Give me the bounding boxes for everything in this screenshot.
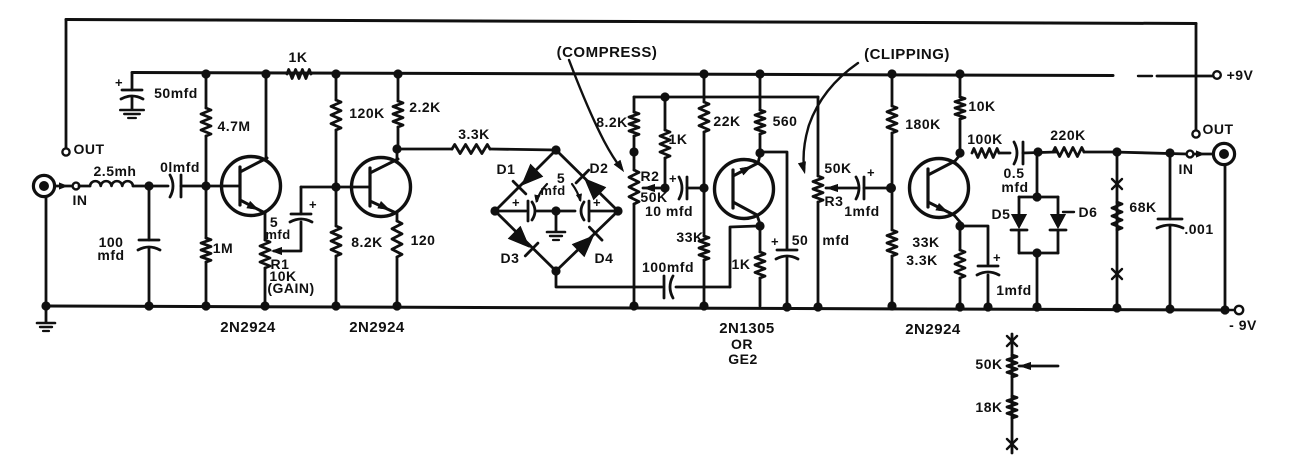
svg-text:33K: 33K xyxy=(912,234,939,250)
svg-text:+: + xyxy=(512,195,520,210)
svg-text:8.2K: 8.2K xyxy=(351,234,383,250)
svg-text:D2: D2 xyxy=(590,160,609,176)
svg-text:OUT: OUT xyxy=(1202,121,1233,137)
svg-text:3.3K: 3.3K xyxy=(906,252,938,268)
svg-text:+: + xyxy=(771,234,779,249)
svg-text:+: + xyxy=(593,195,601,210)
svg-text:(COMPRESS): (COMPRESS) xyxy=(557,44,658,61)
svg-text:+: + xyxy=(669,171,677,186)
svg-text:2N1305: 2N1305 xyxy=(719,320,775,337)
svg-text:R3: R3 xyxy=(825,193,844,209)
svg-text:50K: 50K xyxy=(824,160,851,176)
svg-text:D1: D1 xyxy=(497,161,516,177)
svg-text:220K: 220K xyxy=(1050,127,1085,143)
svg-text:+: + xyxy=(867,165,875,180)
svg-text:1K: 1K xyxy=(732,256,751,272)
svg-text:100mfd: 100mfd xyxy=(642,259,694,275)
svg-text:50K: 50K xyxy=(975,356,1002,372)
svg-text:OR: OR xyxy=(731,336,753,352)
svg-text:10K: 10K xyxy=(968,98,995,114)
svg-text:D3: D3 xyxy=(501,250,520,266)
svg-text:IN: IN xyxy=(1179,161,1194,177)
svg-text:1mfd: 1mfd xyxy=(996,282,1031,298)
svg-text:R2: R2 xyxy=(641,168,660,184)
svg-text:D4: D4 xyxy=(595,250,614,266)
svg-text:1M: 1M xyxy=(213,240,233,256)
svg-text:2.5mh: 2.5mh xyxy=(94,163,137,179)
svg-text:mfd: mfd xyxy=(265,227,290,242)
svg-text:22K: 22K xyxy=(713,113,740,129)
svg-text:+9V: +9V xyxy=(1227,67,1254,83)
svg-text:68K: 68K xyxy=(1129,199,1156,215)
svg-text:(CLIPPING): (CLIPPING) xyxy=(864,46,950,63)
svg-text:3.3K: 3.3K xyxy=(458,126,490,142)
svg-text:mfd: mfd xyxy=(822,232,849,248)
svg-text:+: + xyxy=(993,250,1001,265)
svg-text:OUT: OUT xyxy=(73,141,104,157)
svg-text:0lmfd: 0lmfd xyxy=(160,159,200,175)
svg-text:(GAIN): (GAIN) xyxy=(267,280,314,296)
svg-text:2N2924: 2N2924 xyxy=(349,319,405,336)
svg-text:50mfd: 50mfd xyxy=(154,85,198,101)
svg-text:100K: 100K xyxy=(967,131,1002,147)
svg-text:1K: 1K xyxy=(289,49,308,65)
svg-text:33K: 33K xyxy=(676,229,703,245)
svg-text:2N2924: 2N2924 xyxy=(220,319,276,336)
svg-text:D5: D5 xyxy=(992,206,1011,222)
svg-text:2.2K: 2.2K xyxy=(409,99,441,115)
svg-text:GE2: GE2 xyxy=(728,351,758,367)
svg-text:560: 560 xyxy=(773,113,798,129)
svg-text:+: + xyxy=(309,197,317,212)
svg-text:.001: .001 xyxy=(1184,221,1213,237)
svg-text:50: 50 xyxy=(792,232,809,248)
svg-text:18K: 18K xyxy=(975,399,1002,415)
svg-text:1mfd: 1mfd xyxy=(844,203,879,219)
svg-text:8.2K: 8.2K xyxy=(596,114,628,130)
svg-text:4.7M: 4.7M xyxy=(217,118,250,134)
svg-text:1K: 1K xyxy=(669,131,688,147)
svg-text:180K: 180K xyxy=(905,116,940,132)
svg-text:120K: 120K xyxy=(349,105,384,121)
svg-text:D6: D6 xyxy=(1079,204,1098,220)
svg-text:10 mfd: 10 mfd xyxy=(645,203,693,219)
svg-text:120: 120 xyxy=(411,232,436,248)
svg-text:mfd: mfd xyxy=(1001,179,1028,195)
svg-text:mfd: mfd xyxy=(97,247,124,263)
svg-text:IN: IN xyxy=(73,192,88,208)
svg-text:2N2924: 2N2924 xyxy=(905,321,961,338)
svg-text:- 9V: - 9V xyxy=(1229,317,1257,333)
svg-text:mfd: mfd xyxy=(540,183,565,198)
svg-text:+: + xyxy=(115,75,123,90)
